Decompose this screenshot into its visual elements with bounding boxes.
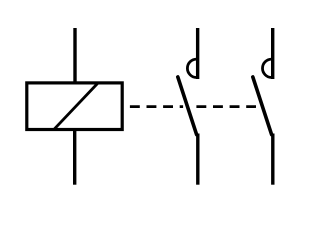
wire: contact S1 top terminal	[196, 28, 199, 79]
contact S2 moving lever	[253, 77, 272, 135]
contact S1 fixed contact hook (semicircle)	[187, 59, 196, 77]
contact S2 fixed contact hook (semicircle)	[263, 59, 272, 77]
contact S1 moving lever	[178, 77, 197, 135]
wire: contact S1 bottom terminal	[196, 134, 199, 185]
relay coil K (rectangle with diagonal slash)	[27, 83, 122, 130]
wire: contact S2 bottom terminal	[271, 134, 274, 185]
mechanical linkage (dashed line from coil to contacts)	[130, 105, 256, 108]
wire: coil top terminal	[73, 28, 76, 83]
wire: coil bottom terminal	[73, 129, 76, 185]
wire: contact S2 top terminal	[271, 28, 274, 79]
